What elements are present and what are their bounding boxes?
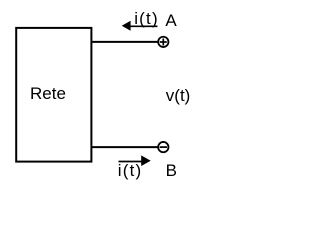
svg-text:i(t): i(t) — [118, 161, 143, 180]
svg-text:B: B — [166, 161, 177, 180]
svg-text:i(t): i(t) — [134, 9, 159, 28]
svg-text:A: A — [165, 11, 177, 30]
svg-text:v(t): v(t) — [166, 86, 191, 105]
svg-text:Rete: Rete — [30, 84, 66, 103]
